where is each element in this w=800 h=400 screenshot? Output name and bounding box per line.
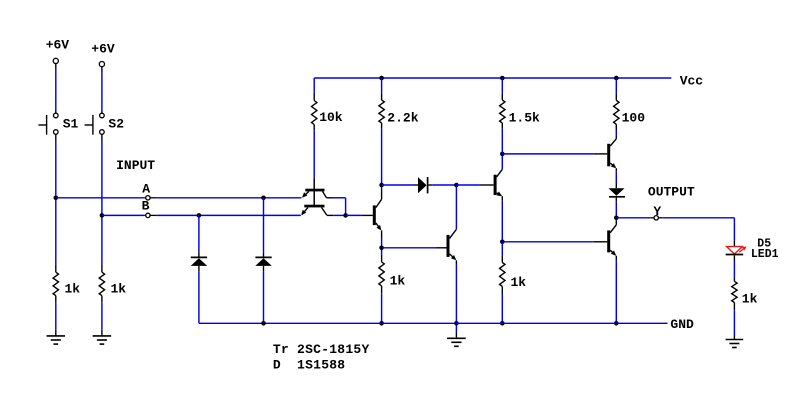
junction ground rail / D2 [261,321,266,326]
label node B [142,199,150,214]
diode D4 (1S1588 totem-pole) [609,184,626,202]
label 10k [319,110,343,125]
resistor 1k (Q5 emitter) [500,255,505,293]
svg-text:1.5k: 1.5k [509,110,540,125]
label 1k (S1 branch) [65,281,81,296]
junction Q2 collector node [379,183,384,188]
resistor 1k (S1 branch) [53,265,58,303]
terminal Y [650,216,662,220]
wire 2.2k to Vcc [381,78,383,93]
junction Q1 collectors [343,213,348,218]
wire Y to LED branch [662,217,734,219]
junction S1/wire-A [54,196,59,201]
wire D3 to node [432,184,456,186]
label S1 [63,117,79,132]
label +6V (S2 supply) [91,42,115,57]
wire +6V terminal1 to S1 [55,69,57,111]
wire D4 to output node [615,201,617,218]
diode D1 (1S1588 input clamp) [191,252,208,271]
wire S2 down to 1k resistor [101,141,103,265]
junction Vcc/1.5k [500,76,505,81]
ground (S1 branch) [47,330,66,344]
wire Q1 collector2 across [333,214,345,216]
svg-text:D 1S1588: D 1S1588 [273,358,345,373]
label 1k (S2 branch) [111,281,127,296]
wire Q5 collector up [501,154,503,169]
junction Vcc/100 [614,76,619,81]
wire node down to Q4 collector [455,185,457,229]
label Vcc [680,74,704,89]
label 1k (LED) [742,291,758,306]
svg-text:S2: S2 [108,117,124,132]
junction ground rail / 1k [379,321,384,326]
transistor Q6 (2SC-1815Y, totem-pole top) [594,137,617,172]
wire S1 down to 1k resistor [55,141,57,265]
wire B left segment [102,214,144,216]
wire A-junction down to D2 [263,198,265,253]
wire Q6 emitter to D4 [615,171,617,183]
junction wire-B / D1 [197,213,202,218]
junction D3 / Q4 collector / Q5 base [454,183,459,188]
svg-text:2.2k: 2.2k [387,110,418,125]
label Tr 2SC-1815Y [273,342,370,357]
wire 1k to ground rail [381,293,383,323]
wire 1.5k down to junction [501,129,503,154]
wire 100 to Q6 collector [615,130,617,137]
node A terminal [144,196,156,200]
wire A left segment [56,197,144,199]
LED D5/LED1 [726,240,747,260]
wire Q4 emitter to ground rail [455,264,457,324]
label GND [670,317,694,332]
wire D1 down to ground rail [198,271,200,323]
svg-text:A: A [142,182,150,197]
label D5 [757,237,771,250]
label 1.5k [509,110,540,125]
wire Q2 emitter to Q4 base [382,247,437,249]
ground (LED branch) [726,336,744,348]
terminal +6V no.1 [53,58,58,68]
switch S1 [38,111,58,141]
label node A [142,182,150,197]
wire Q1 collector1 down [345,198,347,216]
wire 1.5k to Vcc [501,78,503,93]
junction Vcc/2.2k [379,76,384,81]
label 1k (Q5 emitter) [511,275,527,290]
junction ground rail / 1k (Q5) [500,321,505,326]
svg-text:GND: GND [670,317,694,332]
wire +6V terminal2 to S2 [101,72,103,111]
wire D2 down to ground rail [263,271,265,323]
wire Q7 emitter to ground rail [615,260,617,323]
label 1k (Q2 emitter) [390,274,406,289]
ground rail GND [199,322,668,324]
wire B to T1 emitter [156,214,300,216]
svg-text:+6V: +6V [46,37,70,52]
junction output node [614,216,619,221]
wire 1k to ground (S2) [101,302,103,330]
label INPUT [116,158,155,173]
transistor Q4 (2SC-1815Y) [437,229,457,263]
wire Q5 emitter down [501,201,503,242]
wire output node to Y terminal [616,217,650,219]
svg-text:LED1: LED1 [751,248,779,261]
resistor 10k [312,93,317,131]
resistor 1.5k [500,93,505,128]
svg-text:1k: 1k [511,275,527,290]
svg-text:S1: S1 [63,117,79,132]
resistor 1k (S2 branch) [99,265,104,303]
terminal +6V no.2 [99,62,104,72]
label D 1S1588 [273,358,345,373]
resistor 1k (LED) [732,277,737,310]
resistor 100 [614,93,619,130]
diode D3 (1S1588 level shift) [414,177,432,193]
svg-text:Vcc: Vcc [680,74,704,89]
svg-text:1k: 1k [742,291,758,306]
wire 10k to T1 base [313,130,315,178]
wire Q5 collector to Q6 base [502,153,594,155]
wire Q2 collector to D3 [382,184,414,186]
label Y [653,204,661,219]
label 2.2k [387,110,418,125]
Vcc rail [314,77,671,79]
svg-text:Tr 2SC-1815Y: Tr 2SC-1815Y [273,342,370,357]
svg-text:10k: 10k [319,110,343,125]
svg-text:+6V: +6V [91,42,115,57]
wire 2.2k to Q2 collector [381,129,383,190]
wire 100 to Vcc [615,78,617,93]
junction Q2 emitter node [379,246,384,251]
junction wire-A / D2 [261,196,266,201]
junction 1.5k / Q5 collector / Q6 base [500,152,505,157]
wire Q5 emitter to Q7 base [502,241,594,243]
resistor 1k (Q2 emitter) [379,255,384,294]
switch S2 [85,111,105,141]
label LED1 [751,248,779,261]
transistor Q7 (2SC-1815Y, totem-pole bottom) [594,220,617,260]
wire Q2 emitter down [381,238,383,255]
junction Q5 emitter / Q7 base [500,240,505,245]
wire LED to 1k [733,261,735,278]
svg-text:1k: 1k [390,274,406,289]
svg-text:1k: 1k [111,281,127,296]
svg-text:INPUT: INPUT [116,158,155,173]
diode D2 (1S1588 input clamp) [255,252,271,271]
wire Q1 collector1 across [333,197,346,199]
label S2 [108,117,124,132]
wire A to T1 emitter [156,197,301,199]
svg-text:100: 100 [622,110,646,125]
junction ground rail / Q7 emitter [614,321,619,326]
label +6V (S1 supply) [46,37,70,52]
ground (main) [447,323,466,346]
wire LED branch down [733,218,735,241]
wire junction down to 1k [501,242,503,255]
resistor 2.2k [379,93,384,128]
label 100 [622,110,646,125]
svg-text:B: B [142,199,150,214]
wire Q1 collector to Q2 base [346,214,362,216]
transistor Q5 (2SC-1815Y) [479,169,502,200]
wire 1k to ground (S1) [55,302,57,330]
wire node to Q5 base [456,184,479,186]
transistor Q2 (2SC-1815Y) [362,190,382,238]
junction ground rail / Q4 emitter [454,321,459,326]
wire 1k to ground (LED) [733,310,735,335]
svg-text:OUTPUT: OUTPUT [648,184,695,199]
label OUTPUT [648,184,695,199]
wire Vcc to 10k [313,78,315,93]
transistor Q1 multi-emitter (2SC-1815Y) [301,178,333,215]
junction S2/wire-B [100,213,105,218]
svg-text:1k: 1k [65,281,81,296]
wire B-junction down to D1 [198,215,200,252]
ground (S2 branch) [93,330,112,344]
node B terminal [144,213,156,217]
wire 1k to ground rail [501,294,503,324]
